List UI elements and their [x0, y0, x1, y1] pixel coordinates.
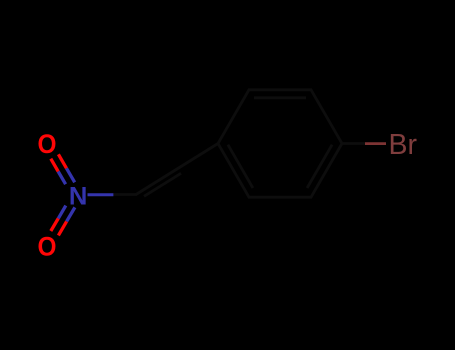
nitro N=O top bond : outer line red half	[58, 154, 66, 168]
bond C-Br dark red half	[365, 142, 386, 145]
bond N-C1 blue half	[88, 193, 114, 196]
aromatic inner bond bottom-left	[228, 145, 253, 188]
nitro N=O bottom bond : outer line red half	[58, 221, 66, 235]
nitro N=O top bond : outer line blue half	[67, 168, 75, 182]
aromatic inner bond bottom-right	[307, 145, 332, 188]
wire C1-C2-Cring	[136, 144, 218, 195]
nitro N=O top bond : inner line red half	[51, 159, 58, 172]
svg-text:O: O	[38, 231, 57, 261]
svg-text:O: O	[38, 129, 57, 159]
benzene ring	[218, 90, 342, 197]
nitro N=O top bond : inner line blue half	[58, 172, 65, 185]
wire N-C1 black half	[114, 193, 138, 196]
nitro N=O bottom bond : inner line red half	[51, 218, 59, 231]
svg-text:N: N	[69, 182, 88, 210]
vinyl chain to ring	[114, 144, 366, 197]
svg-text:Br: Br	[389, 129, 418, 161]
nitro N=O bottom bond : inner line blue half	[58, 206, 66, 219]
wire Cring-Br black half	[342, 142, 365, 145]
vinyl double bond inner line	[144, 173, 181, 196]
aromatic inner bond top	[254, 96, 306, 99]
nitro N=O bottom bond : outer line blue half	[67, 207, 75, 221]
